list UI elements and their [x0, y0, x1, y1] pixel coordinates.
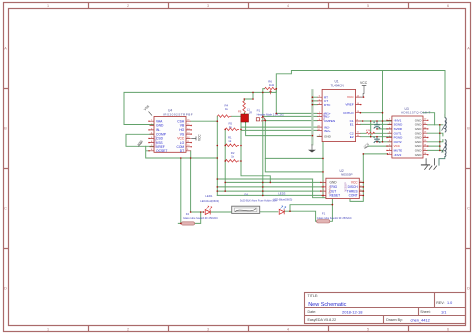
wire LED1 to fuse holder F4 — [211, 211, 232, 213]
svg-text:3: 3 — [207, 4, 209, 8]
svg-text:AD8115TQ-D18-T: AD8115TQ-D18-T — [401, 111, 431, 115]
fuse holder F4 — [232, 193, 277, 214]
svg-text:5: 5 — [367, 328, 369, 332]
svg-text:CNTLO: CNTLO — [343, 111, 354, 115]
svg-text:IRS2092S: IRS2092S — [154, 136, 158, 148]
svg-text:F4: F4 — [245, 193, 249, 197]
wire L1 bottom to ground bus — [246, 122, 313, 135]
svg-text:D: D — [467, 287, 470, 291]
svg-text:DTC: DTC — [324, 103, 331, 107]
svg-text:CONT: CONT — [349, 194, 358, 198]
wire R6 left lead to U4-side IN1- — [263, 89, 318, 196]
wire U1 GND drop to U2 loop — [317, 136, 323, 197]
svg-text:2: 2 — [127, 4, 129, 8]
op-amp U4 IRS2092STRPBF — [150, 108, 194, 153]
svg-text:F1: F1 — [322, 212, 326, 216]
wire ladder row A to U2 loop — [217, 178, 312, 180]
wire resistor bank right vertical — [231, 116, 241, 161]
wire speaker bus vertical — [439, 125, 441, 151]
wire resistor bank to IN2- — [241, 126, 317, 128]
svg-text:4: 4 — [287, 4, 289, 8]
svg-text:LED-Blue(0603): LED-Blue(0603) — [273, 198, 292, 202]
connector P1 header — [256, 108, 284, 121]
wire ladder GND row — [225, 181, 321, 183]
wire U4 CSH to vertical — [191, 120, 218, 122]
svg-text:VCC: VCC — [360, 81, 368, 85]
speaker coil LS2 — [442, 140, 447, 157]
svg-text:Header Male 2.54_1x1: Header Male 2.54_1x1 — [257, 112, 285, 116]
svg-text:TL494: TL494 — [322, 113, 326, 121]
svg-text:GND: GND — [330, 181, 338, 185]
svg-text:GND: GND — [324, 135, 332, 139]
wire R6 leads — [263, 88, 265, 90]
wire TL494 timing bus — [312, 90, 317, 144]
junction dots — [180, 88, 441, 224]
svg-text:DT: DT — [180, 149, 184, 153]
wire F4 to LED3 — [260, 211, 278, 213]
wire F2 right lead up to LED1 node — [195, 212, 201, 223]
wire R2 net to GND row — [241, 161, 270, 182]
svg-text:Module: Module — [329, 185, 332, 194]
svg-text:OCSET: OCSET — [156, 149, 167, 153]
svg-text:6: 6 — [447, 4, 449, 8]
wire U2 left loop — [313, 179, 364, 201]
resistor R4 vertical — [225, 101, 246, 114]
fuse F1 glass tube — [317, 212, 352, 223]
svg-text:P1: P1 — [257, 108, 261, 112]
capacitor C2 polarized — [373, 136, 380, 143]
svg-text:Drawn By:: Drawn By: — [386, 318, 403, 322]
wire U3 top right corner — [423, 113, 435, 125]
svg-text:2: 2 — [127, 328, 129, 332]
wire cap2 bottom row — [377, 141, 392, 143]
svg-text:VREF: VREF — [345, 103, 353, 107]
svg-text:3: 3 — [207, 328, 209, 332]
wire to U3 VCC pin — [369, 145, 392, 147]
svg-text:GND: GND — [156, 124, 164, 128]
wire drop to fuse F2 — [178, 158, 181, 223]
resistor R3 — [225, 121, 239, 130]
wire R6 right lead to IN1+ — [276, 89, 317, 114]
wire top long net from left to top-right — [124, 71, 445, 125]
wire U3 GND pins to speaker bus — [427, 125, 440, 151]
power flag VCC at U4 — [191, 134, 201, 141]
svg-text:D: D — [4, 287, 7, 291]
svg-text:-INV2: -INV2 — [394, 153, 402, 157]
LED LED3 blue — [273, 191, 292, 214]
wire resistor bank to IN2+ — [241, 129, 317, 131]
svg-text:2018-12-18: 2018-12-18 — [342, 309, 363, 314]
svg-text:1.0: 1.0 — [447, 301, 452, 305]
svg-text:TL494CN: TL494CN — [331, 84, 344, 88]
svg-text:474: 474 — [366, 129, 371, 132]
wire link C1 row to E2 row — [370, 121, 372, 137]
svg-text:E2: E2 — [350, 135, 354, 139]
capacitor C1 polarized — [373, 121, 380, 129]
svg-text:1R: 1R — [249, 110, 252, 114]
wire top net branch down — [382, 71, 384, 142]
wire P1 net down to U1 GND net — [265, 119, 323, 172]
resistor R6 — [265, 79, 277, 94]
fuse F2 glass tube — [181, 212, 218, 225]
svg-text:LED1: LED1 — [205, 194, 213, 198]
wire coil2 bottom — [439, 157, 445, 166]
ground at TL494 bus — [308, 144, 316, 152]
wire ladder TRIG row — [217, 186, 321, 188]
resistor R7 between U1 and U3 — [366, 129, 375, 134]
resistor R1 — [225, 136, 239, 147]
svg-text:chen_4412: chen_4412 — [411, 317, 430, 322]
wire vertical right of U4 — [216, 116, 218, 195]
wire drop to LED1 — [191, 158, 204, 212]
wire cap C row to U3 SVRR — [377, 128, 392, 130]
wire U2 net to U3 -INV2 — [363, 153, 387, 155]
wire P1 to CMPEN — [265, 120, 317, 122]
wire U1 E1 row to U3 — [360, 123, 392, 125]
svg-text:New Schematic: New Schematic — [308, 302, 346, 308]
wire resistor bank left vertical — [224, 129, 226, 191]
speaker coil LS1 — [442, 114, 447, 132]
svg-text:4: 4 — [287, 328, 289, 332]
ground below U3 — [421, 158, 437, 170]
svg-text:Glass tube fuse2A 3F 250VAC: Glass tube fuse2A 3F 250VAC — [317, 216, 352, 220]
wire U2 bottom pin to F1 right lead — [330, 199, 333, 222]
svg-text:REV:: REV: — [436, 301, 444, 305]
svg-text:GND: GND — [415, 153, 423, 157]
op-amp U1 TL494CN — [317, 80, 360, 142]
wire R4 top link — [244, 92, 253, 100]
svg-text:IN2+: IN2+ — [324, 129, 331, 133]
resistor R2 — [225, 151, 239, 162]
wire U-loop to U4 COMP and VREF — [126, 134, 154, 146]
net label VSS at U4 VREF wire — [136, 139, 143, 146]
wire U4 DT drop — [190, 151, 192, 158]
wire VCC flag stem U1 — [360, 86, 364, 97]
svg-text:C: C — [4, 207, 7, 211]
svg-text:5: 5 — [367, 4, 369, 8]
svg-text:LED-Red(0603): LED-Red(0603) — [200, 199, 219, 203]
svg-text:IRS2092STRPBF: IRS2092STRPBF — [163, 112, 193, 116]
svg-text:Glass tube fuse2A 3F 250VAC: Glass tube fuse2A 3F 250VAC — [183, 216, 218, 220]
wire U1 C1 row to U3 — [360, 120, 392, 122]
wire node to U2 bottom pin — [290, 205, 332, 212]
wire U2 right vertical to U3 — [359, 154, 363, 196]
svg-text:1/1: 1/1 — [441, 309, 446, 314]
wire below U4 horizontal — [146, 146, 218, 158]
inductor L1 ferrite bead — [238, 108, 252, 123]
svg-text:Date:: Date: — [308, 310, 317, 314]
wire to U4 GND pin — [124, 124, 154, 126]
svg-text:VCC: VCC — [351, 181, 358, 185]
timer U2 NE555P — [321, 169, 363, 199]
svg-text:F2: F2 — [186, 212, 190, 216]
svg-text:1: 1 — [47, 4, 49, 8]
svg-text:VCC: VCC — [198, 134, 202, 141]
wire U1 pin13 to top net — [360, 112, 382, 114]
amplifier U3 AD8115TQ — [388, 107, 431, 158]
resistor R5 — [217, 115, 231, 118]
wire U1 C2 row to U3 through R — [360, 132, 392, 134]
wire U1 E2 row to U3 — [360, 136, 392, 138]
svg-text:Sheet:: Sheet: — [420, 310, 430, 314]
LED LED1 red — [200, 194, 219, 214]
svg-text:VCC: VCC — [347, 95, 354, 99]
svg-text:FB: FB — [238, 110, 242, 114]
svg-text:E1: E1 — [350, 123, 354, 127]
svg-text:LED3: LED3 — [278, 191, 286, 195]
unconnected pin markers — [148, 104, 428, 192]
svg-text:5x20 BLK Atom Fuse Holder 10A: 5x20 BLK Atom Fuse Holder 10A — [240, 199, 277, 202]
svg-text:TITLE:: TITLE: — [308, 294, 319, 298]
svg-text:6: 6 — [447, 328, 449, 332]
wire LED3 row to F1 — [285, 211, 317, 221]
power flag VCC at U1 — [360, 81, 368, 86]
svg-text:NE555P: NE555P — [345, 182, 348, 192]
wire bus to coil1 — [440, 125, 443, 152]
svg-text:1kΩ: 1kΩ — [269, 83, 275, 87]
svg-text:NE555P: NE555P — [341, 173, 353, 177]
wire ladder RESET row — [217, 194, 321, 196]
svg-text:C: C — [467, 207, 470, 211]
net label VCC diagonal at U2 net — [363, 141, 371, 149]
svg-text:EasyEDA V5.8.22: EasyEDA V5.8.22 — [308, 318, 337, 322]
svg-text:1: 1 — [47, 328, 49, 332]
net label VSS at U4 left top — [143, 104, 152, 115]
wire P1 net horizontal upper — [265, 157, 323, 159]
wire ladder OUT row — [217, 190, 321, 192]
